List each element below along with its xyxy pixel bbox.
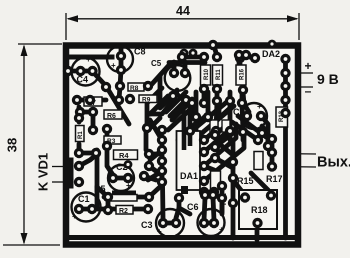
svg-text:R17: R17 (266, 174, 283, 184)
wire DA1 left col (160, 140, 165, 182)
wire grid verticals (194, 92, 199, 117)
inner rim traces (68, 57, 293, 238)
wire wedge extra (166, 92, 186, 112)
middle-left pads (102, 124, 112, 134)
svg-text:R10: R10 (204, 68, 210, 80)
svg-text:R15: R15 (237, 176, 254, 186)
wire C7 connections (243, 92, 249, 112)
svg-text:R16: R16 (240, 68, 246, 80)
svg-text:Вых.: Вых. (317, 155, 350, 171)
svg-text:K VD1: K VD1 (36, 153, 51, 191)
resistor R10 vertical (201, 65, 211, 85)
relay R18 box (239, 190, 277, 229)
svg-text:R9: R9 (142, 97, 151, 104)
svg-text:R11: R11 (216, 69, 222, 80)
wire right top column (283, 59, 288, 113)
DA1 pads right col (199, 135, 209, 145)
capacitor C1 (72, 193, 101, 222)
wire bottom strip extra (179, 208, 190, 214)
wire C8 vertical (119, 48, 124, 70)
wire top center verticals (182, 55, 204, 60)
top area pads (101, 82, 111, 92)
svg-text:+: + (126, 181, 131, 190)
resistor R1 vertical (76, 126, 85, 142)
svg-text:38: 38 (5, 138, 20, 152)
wire DA1 right column risers (204, 120, 216, 140)
svg-text:+: + (111, 61, 116, 70)
svg-text:R2: R2 (119, 208, 128, 215)
wire left col to R3 (77, 98, 106, 103)
wire C2 to R5 area (113, 176, 128, 181)
capacitor C2 (108, 162, 134, 191)
IC DA1 (177, 131, 201, 194)
wire mid bottom row (79, 207, 116, 212)
svg-text:C7: C7 (233, 107, 245, 117)
wire center wedge diagonals (190, 99, 195, 117)
resistor R5 body (112, 191, 136, 195)
svg-text:DA1: DA1 (180, 171, 198, 181)
svg-text:R5: R5 (94, 184, 106, 194)
resistor R2 (116, 206, 133, 216)
dimension 38 left (3, 44, 62, 245)
wire DA1 inner verticals (182, 112, 187, 130)
svg-text:C8: C8 (134, 47, 146, 57)
wire left mid (105, 129, 110, 140)
wire diag C4 to R6 (93, 72, 129, 124)
svg-text:C1: C1 (78, 194, 90, 204)
wire C4 pads to border (68, 69, 92, 74)
capacitor C6 (187, 202, 225, 236)
wire right zone (262, 117, 268, 146)
wire R1 vertical (91, 112, 96, 128)
center grid pads (199, 52, 209, 62)
svg-text:C5: C5 (151, 59, 162, 68)
resistor R8 (128, 83, 144, 92)
resistor R16 vertical (236, 65, 246, 85)
resistor R7 (84, 97, 102, 107)
resistor R6 (104, 110, 122, 120)
svg-text:+: + (86, 55, 91, 64)
wire C5 top bus (169, 60, 205, 65)
wire right of DA1 extra (215, 158, 233, 168)
svg-text:+: + (72, 212, 77, 221)
svg-text:C4: C4 (77, 75, 89, 85)
svg-text:44: 44 (176, 4, 190, 18)
wire C3 C6 links (176, 208, 179, 218)
svg-text:R4: R4 (119, 151, 129, 160)
resistor R15 box + label (237, 152, 263, 187)
svg-text:R1: R1 (78, 131, 84, 139)
wire R18 feeders (233, 180, 244, 194)
left column pads (72, 95, 82, 105)
svg-text:+: + (157, 227, 162, 236)
capacitor C8 (107, 46, 146, 75)
dimension 44 top (66, 13, 299, 40)
resistor R3 (104, 136, 121, 145)
resistor R4 (114, 150, 138, 160)
svg-text:R8: R8 (130, 85, 139, 92)
wire bottom right verticals (220, 186, 225, 212)
resistor R9 (139, 95, 157, 104)
wire C5 lower diagonals (148, 88, 162, 102)
wire C3/C6 row (163, 221, 176, 226)
svg-text:+: + (304, 59, 311, 73)
capacitor C7 (233, 102, 267, 129)
svg-text:C3: C3 (141, 220, 153, 230)
DA1 pads left col (157, 135, 167, 145)
svg-text:C6: C6 (187, 202, 199, 212)
wire left col connects (77, 144, 82, 153)
resistor R13 vertical (276, 107, 288, 127)
bottom area pads (200, 190, 210, 200)
board outline (66, 46, 298, 245)
resistor R11 vertical (213, 65, 223, 85)
right column pads (280, 54, 290, 64)
resistor R12 vertical (211, 171, 229, 205)
svg-text:+: + (257, 102, 262, 111)
svg-text:R18: R18 (251, 205, 268, 215)
wire bottom center (204, 198, 205, 220)
capacitor C3 (141, 209, 184, 237)
wire right mid diagonals (232, 122, 258, 140)
svg-text:DA2: DA2 (262, 49, 280, 59)
svg-text:–: – (305, 84, 312, 98)
capacitor C5 (151, 59, 190, 91)
svg-text:9 В: 9 В (317, 71, 339, 87)
wire DA1 inner verticals2 (194, 122, 199, 134)
jumper boxes center (210, 120, 218, 132)
svg-text:+: + (219, 225, 224, 234)
capacitor C4 (72, 55, 100, 86)
svg-text:R6: R6 (107, 113, 116, 120)
